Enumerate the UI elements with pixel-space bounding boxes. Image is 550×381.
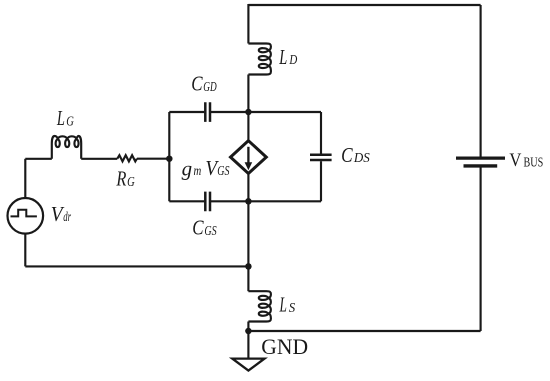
wire drain node to CDS top	[248, 111, 321, 113]
junction source node	[245, 198, 252, 205]
svg-text:GD: GD	[203, 80, 216, 95]
wire CDS bottom to source node	[248, 200, 321, 202]
wire LD to drain node	[247, 75, 249, 113]
wire left to LG	[25, 158, 52, 160]
capacitor CGS plates	[205, 192, 210, 212]
wire CDS lower stub	[320, 161, 322, 201]
svg-text:D: D	[289, 53, 298, 68]
wire CGS right segment	[211, 200, 248, 202]
wire CGD right segment	[211, 111, 248, 113]
voltage source Vdr circle	[8, 198, 44, 234]
wire right bus lower	[480, 168, 482, 332]
svg-text:L: L	[279, 45, 288, 69]
wire return node to LS	[247, 266, 249, 291]
current source diamond gmVGS	[231, 141, 267, 174]
battery VBUS long plate	[456, 157, 505, 160]
wire LG to RG	[81, 158, 117, 160]
junction drain node	[245, 109, 252, 116]
wire RG to gate node	[137, 158, 169, 160]
wire source node down to return node	[247, 201, 249, 266]
wire diamond top stub	[247, 112, 249, 141]
wire right bus upper	[480, 5, 482, 157]
capacitor CGD plates	[205, 102, 210, 122]
capacitor CDS plates	[310, 155, 332, 160]
junction gnd node	[245, 328, 252, 335]
current source arrow shaft	[247, 147, 249, 163]
svg-text:BUS: BUS	[524, 156, 544, 171]
svg-text:R: R	[116, 167, 127, 191]
svg-text:GS: GS	[204, 224, 216, 239]
inductor LD	[248, 44, 271, 75]
svg-text:dr: dr	[63, 210, 71, 225]
wire CDS upper stub	[320, 112, 322, 154]
battery VBUS short plate	[464, 164, 498, 167]
inductor LG	[52, 136, 81, 159]
current source arrowhead	[245, 162, 253, 170]
wire LD top stub	[247, 4, 249, 44]
wire Vdr top stub	[24, 159, 26, 198]
Vdr pulse symbol	[11, 210, 37, 217]
svg-text:m: m	[194, 164, 202, 179]
svg-text:C: C	[192, 216, 204, 240]
svg-text:C: C	[341, 143, 353, 167]
wire Vdr bottom stub	[24, 234, 26, 267]
wire bottom left return	[25, 265, 248, 267]
svg-text:GND: GND	[261, 334, 308, 359]
resistor RG zigzag	[117, 155, 137, 161]
svg-text:g: g	[182, 156, 193, 180]
junction return node	[245, 263, 252, 270]
svg-text:DS: DS	[353, 151, 370, 166]
wire CGS left segment	[169, 200, 204, 202]
svg-text:GS: GS	[217, 164, 229, 179]
svg-text:V: V	[509, 150, 521, 171]
ground symbol	[232, 359, 264, 371]
wire CGD left segment	[169, 111, 204, 113]
wire gnd stub	[247, 331, 249, 359]
inductor LS	[248, 291, 271, 321]
wire bottom bus	[248, 330, 480, 332]
svg-text:S: S	[289, 301, 295, 316]
svg-text:G: G	[127, 175, 135, 190]
svg-text:L: L	[279, 293, 287, 317]
svg-text:G: G	[66, 114, 74, 129]
svg-text:L: L	[56, 106, 65, 130]
junction gate node	[166, 155, 173, 162]
svg-text:C: C	[191, 72, 203, 96]
wire LS to gnd node	[247, 322, 249, 332]
wire top bus	[248, 4, 480, 6]
wire inner box left vertical	[168, 112, 170, 201]
wire diamond bottom stub	[247, 174, 249, 202]
